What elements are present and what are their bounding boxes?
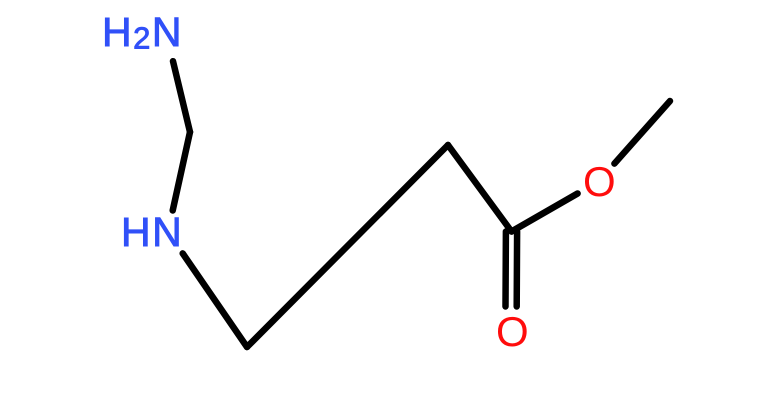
bond C4-C(carbonyl) [448, 145, 512, 232]
svg-text:HN: HN [121, 209, 183, 255]
bond C(carbonyl)-O(ester) [512, 194, 578, 232]
double bond C=O line 2 [502, 232, 509, 307]
svg-text:O: O [583, 158, 616, 205]
bond N(amine)-C1 [173, 61, 190, 132]
double bond C=O line 1 [513, 232, 520, 307]
bond C1-N(ring) [173, 132, 190, 211]
bond C2-C4 diagonal [247, 145, 448, 347]
svg-text:H2N: H2N [102, 9, 183, 56]
bond N(ring)-C2 [183, 253, 247, 347]
bond O(ester)-CH3 [614, 101, 670, 164]
svg-text:O: O [496, 308, 529, 355]
